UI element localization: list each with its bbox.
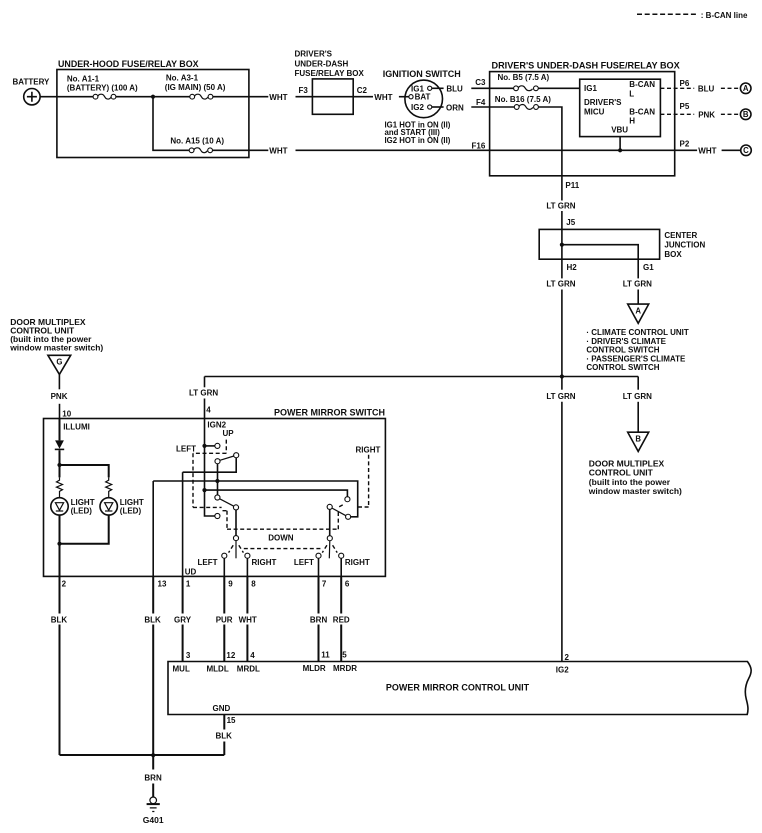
svg-text:PNK: PNK bbox=[698, 111, 715, 120]
svg-text:BLK: BLK bbox=[51, 615, 68, 624]
svg-text:G1: G1 bbox=[643, 263, 654, 272]
terminal C bbox=[741, 145, 752, 156]
label RIGHT linkage dashed bbox=[356, 445, 381, 507]
svg-text:C2: C2 bbox=[357, 86, 368, 95]
svg-text:LT GRN: LT GRN bbox=[623, 392, 652, 401]
svg-text:BATTERY: BATTERY bbox=[13, 77, 51, 86]
node: IGN2 to UP contact bbox=[202, 444, 206, 448]
under-hood fuse/relay box bbox=[57, 59, 249, 158]
svg-text:BOX: BOX bbox=[664, 250, 682, 259]
node: LED branch bbox=[57, 463, 61, 467]
svg-text:BRN: BRN bbox=[144, 774, 162, 783]
wire branch down to fuse A15 bbox=[153, 97, 189, 151]
svg-text:No. A15 (10 A): No. A15 (10 A) bbox=[170, 137, 224, 146]
svg-text:3: 3 bbox=[186, 651, 191, 660]
triangle connector A bbox=[628, 304, 649, 323]
svg-text:BLK: BLK bbox=[144, 615, 161, 624]
wire bus (LT GRN) down to pin 4 bbox=[189, 377, 218, 419]
contact UP fixed bbox=[215, 443, 220, 448]
svg-text:BLU: BLU bbox=[698, 85, 715, 94]
diode (illumination) bbox=[55, 440, 64, 449]
contact RIGHT (pin 6) bbox=[339, 553, 344, 558]
wire through F3 box bbox=[312, 96, 353, 98]
LED right: LIGHT (LED) bbox=[100, 498, 144, 516]
svg-text:9: 9 bbox=[228, 579, 233, 588]
wire left pole down bbox=[235, 510, 237, 536]
terminal B bbox=[740, 109, 751, 120]
wire node to pin 2 bbox=[59, 544, 61, 577]
note: door multiplex control unit (right) bbox=[588, 458, 682, 496]
contact RIGHT (pin 8) bbox=[245, 553, 250, 558]
svg-text:MICU: MICU bbox=[584, 108, 605, 117]
svg-text:No. A3-1: No. A3-1 bbox=[166, 74, 199, 83]
B-CAN line legend bbox=[637, 11, 748, 20]
svg-text:GRY: GRY bbox=[174, 615, 192, 624]
svg-text:(IG MAIN) (50 A): (IG MAIN) (50 A) bbox=[165, 83, 226, 92]
svg-text:IG1: IG1 bbox=[411, 84, 424, 93]
driver's MICU bbox=[580, 79, 661, 136]
svg-text:RIGHT: RIGHT bbox=[356, 445, 381, 454]
svg-text:· DRIVER'S CLIMATE: · DRIVER'S CLIMATE bbox=[586, 337, 666, 346]
ignition switch bbox=[383, 69, 461, 118]
wire pin 13 (BLK) down bbox=[144, 576, 161, 755]
svg-text:No. B16 (7.5 A): No. B16 (7.5 A) bbox=[495, 95, 551, 104]
svg-text:UP: UP bbox=[223, 429, 235, 438]
power mirror control unit box bbox=[168, 662, 751, 715]
note: door multiplex control unit (left) bbox=[9, 317, 103, 353]
selector lever left bbox=[235, 541, 237, 559]
svg-text:IG2: IG2 bbox=[411, 103, 424, 112]
svg-text:11: 11 bbox=[321, 650, 330, 659]
svg-text:B: B bbox=[635, 435, 641, 444]
svg-text:DRIVER'S: DRIVER'S bbox=[584, 98, 622, 107]
wire H2 (LT GRN) down bbox=[546, 259, 575, 376]
svg-text:IG2: IG2 bbox=[556, 665, 569, 674]
svg-text:A: A bbox=[635, 306, 641, 315]
svg-text:P5: P5 bbox=[680, 102, 690, 111]
svg-text:LEFT: LEFT bbox=[198, 558, 218, 567]
switch arm UP bbox=[215, 453, 239, 464]
svg-text:BLK: BLK bbox=[216, 732, 233, 741]
wire G1 (LT GRN) to triangle A bbox=[623, 259, 652, 304]
svg-text:ORN: ORN bbox=[446, 103, 464, 112]
driver's under-dash fuse/relay box bbox=[490, 61, 680, 176]
svg-text:8: 8 bbox=[251, 579, 256, 588]
wire A3-1 out of box (WHT) to F3 bbox=[213, 93, 313, 102]
wire UD to pin 1 bbox=[182, 472, 184, 576]
wire branch to left resistor bbox=[59, 465, 61, 477]
svg-text:DOWN: DOWN bbox=[268, 533, 294, 542]
note: ignition hot conditions bbox=[385, 121, 451, 145]
terminal BAT bbox=[409, 93, 431, 102]
selector lever right bbox=[328, 541, 331, 559]
wire B-CAN H dashed (PNK) to terminal B bbox=[660, 111, 739, 120]
svg-text:10: 10 bbox=[62, 409, 71, 418]
wire contact pin 7 down bbox=[318, 558, 320, 576]
svg-text:No. A1-1: No. A1-1 bbox=[67, 74, 100, 83]
wire junction to G1 bbox=[562, 245, 638, 260]
LED left: LIGHT (LED) bbox=[51, 498, 95, 516]
wire contact pin 6 down bbox=[340, 558, 342, 576]
svg-text:LEFT: LEFT bbox=[176, 444, 196, 453]
svg-text:UNDER-HOOD FUSE/RELAY BOX: UNDER-HOOD FUSE/RELAY BOX bbox=[58, 59, 199, 69]
terminal IG2 bbox=[411, 103, 432, 112]
svg-text:F16: F16 bbox=[472, 141, 486, 150]
node: IGN2 to right switch feed bbox=[202, 488, 206, 492]
svg-text:2: 2 bbox=[62, 579, 67, 588]
svg-text:· CLIMATE CONTROL UNIT: · CLIMATE CONTROL UNIT bbox=[586, 328, 688, 337]
svg-text:H2: H2 bbox=[567, 263, 578, 272]
svg-text:JUNCTION: JUNCTION bbox=[664, 241, 705, 250]
resistor (left LED) bbox=[57, 477, 63, 497]
svg-text:WHT: WHT bbox=[698, 147, 716, 156]
svg-text:· PASSENGER'S CLIMATE: · PASSENGER'S CLIMATE bbox=[586, 354, 686, 363]
dashed mechanical link UD bbox=[223, 504, 345, 529]
svg-text:BLU: BLU bbox=[446, 85, 463, 94]
fuse No. A3-1 (IG MAIN) (50 A) bbox=[165, 74, 226, 100]
wire branch to right LED bbox=[60, 465, 109, 477]
svg-text:RIGHT: RIGHT bbox=[252, 558, 277, 567]
contact right pole bbox=[327, 536, 332, 541]
svg-text:B-CAN: B-CAN bbox=[629, 107, 655, 116]
note: climate control units bbox=[586, 328, 688, 372]
wire J5 into junction box bbox=[561, 229, 563, 259]
selector dashes left bbox=[229, 545, 244, 552]
svg-text:IG2 HOT in ON (II): IG2 HOT in ON (II) bbox=[385, 136, 451, 145]
svg-text:BRN: BRN bbox=[310, 615, 328, 624]
svg-text:MLDL: MLDL bbox=[207, 665, 229, 674]
svg-text:UNDER-DASH: UNDER-DASH bbox=[295, 59, 349, 68]
svg-text:P2: P2 bbox=[680, 139, 690, 148]
wire pin 9 (PUR) to pin 12 MLDL bbox=[216, 576, 233, 661]
resistor (right LED) bbox=[106, 477, 112, 497]
svg-text:PUR: PUR bbox=[216, 615, 233, 624]
wire pin 13 bus to right switch lower contact bbox=[153, 481, 358, 517]
svg-text:WHT: WHT bbox=[269, 93, 287, 102]
svg-text:7: 7 bbox=[322, 579, 327, 588]
wire fuse A1-1 to junction bbox=[116, 96, 190, 98]
wire right pole down bbox=[329, 509, 331, 535]
svg-text:F3: F3 bbox=[299, 86, 309, 95]
svg-text:12: 12 bbox=[226, 651, 235, 660]
wire C2 (WHT) to ignition switch BAT bbox=[353, 93, 409, 102]
switch arm DOWN bbox=[215, 495, 239, 510]
svg-text:2: 2 bbox=[565, 653, 570, 662]
svg-text:MRDL: MRDL bbox=[237, 665, 260, 674]
wire IGN2 to UP contact bbox=[205, 445, 215, 447]
terminal A bbox=[740, 83, 751, 94]
svg-text:DRIVER'S UNDER-DASH FUSE/RELAY: DRIVER'S UNDER-DASH FUSE/RELAY BOX bbox=[492, 61, 680, 71]
triangle connector G bbox=[48, 355, 71, 374]
svg-text:ILLUMI: ILLUMI bbox=[63, 423, 90, 432]
wire right LED down and join bbox=[60, 515, 109, 544]
wire F16 line to P2 (WHT) terminal C bbox=[490, 147, 741, 156]
svg-text:P11: P11 bbox=[565, 181, 579, 190]
svg-text:RIGHT: RIGHT bbox=[345, 558, 370, 567]
triangle connector B bbox=[628, 432, 649, 451]
svg-text:(LED): (LED) bbox=[120, 507, 142, 516]
svg-text:MLDR: MLDR bbox=[303, 664, 326, 673]
svg-text:LEFT: LEFT bbox=[294, 558, 314, 567]
wire left LED down bbox=[59, 515, 61, 544]
wire pin 1 (GRY) to pin 3 MUL bbox=[174, 576, 192, 661]
node: pivot link to pin 13 bus bbox=[215, 479, 219, 483]
wire pin 8 (WHT) to pin 4 MRDL bbox=[239, 576, 257, 661]
dashed mechanical link selector bbox=[244, 548, 321, 550]
wire BRN to ground bbox=[144, 755, 162, 797]
svg-text:1: 1 bbox=[186, 579, 191, 588]
wire IG1 (BLU) to C3 bbox=[432, 85, 490, 94]
node: branch junction bbox=[151, 95, 155, 99]
svg-text:13: 13 bbox=[158, 579, 167, 588]
svg-text:IGNITION SWITCH: IGNITION SWITCH bbox=[383, 69, 461, 79]
wire ground bus bbox=[60, 754, 225, 756]
contact LEFT (pin 7) bbox=[316, 553, 321, 558]
svg-text:B-CAN: B-CAN bbox=[629, 80, 655, 89]
svg-text:G401: G401 bbox=[143, 815, 164, 825]
svg-text:POWER MIRROR CONTROL UNIT: POWER MIRROR CONTROL UNIT bbox=[386, 682, 530, 692]
svg-text:C3: C3 bbox=[475, 78, 486, 87]
wire IGN2 bus to right switch upper contact bbox=[205, 490, 348, 497]
svg-text:(BATTERY) (100 A): (BATTERY) (100 A) bbox=[67, 84, 138, 93]
wire IG2 (ORN) to F4 bbox=[432, 103, 490, 112]
svg-text:L: L bbox=[629, 89, 634, 98]
contact left pole bbox=[233, 536, 238, 541]
svg-text:C: C bbox=[743, 146, 749, 155]
svg-text:H: H bbox=[629, 117, 635, 126]
wire UP throw down to UD line bbox=[183, 458, 237, 472]
node: ground junction bbox=[151, 753, 155, 757]
svg-text:DRIVER'S: DRIVER'S bbox=[295, 50, 333, 59]
wire pin 2 (BLK) down bbox=[51, 576, 68, 755]
contact right switch lower bbox=[346, 514, 351, 519]
wire LT GRN bus to power mirror switch bbox=[205, 376, 639, 378]
svg-text:POWER MIRROR SWITCH: POWER MIRROR SWITCH bbox=[274, 408, 385, 418]
svg-text:F4: F4 bbox=[476, 98, 486, 107]
svg-text:4: 4 bbox=[250, 651, 255, 660]
svg-text:No. B5 (7.5 A): No. B5 (7.5 A) bbox=[498, 73, 550, 82]
svg-text:5: 5 bbox=[342, 650, 347, 659]
center junction box bbox=[539, 229, 705, 259]
svg-text:WHT: WHT bbox=[239, 615, 257, 624]
svg-text:LT GRN: LT GRN bbox=[546, 280, 575, 289]
wire arm pivot link bbox=[217, 464, 219, 495]
svg-text:RED: RED bbox=[333, 615, 350, 624]
wire contact pin 8 down bbox=[246, 558, 248, 576]
wire pin 13 drop bbox=[152, 481, 154, 576]
fuse No. B16 (7.5 A) bbox=[490, 95, 552, 109]
svg-text:LT GRN: LT GRN bbox=[623, 280, 652, 289]
svg-text:G: G bbox=[56, 358, 62, 367]
selector dashes right bbox=[322, 545, 337, 552]
power mirror switch box bbox=[44, 408, 386, 577]
wire G (PNK) to pin 10 bbox=[51, 374, 68, 418]
wire diode to LED branch node bbox=[59, 450, 61, 465]
terminal IG1 bbox=[411, 84, 432, 93]
svg-text:15: 15 bbox=[227, 716, 236, 725]
svg-text:CONTROL SWITCH: CONTROL SWITCH bbox=[586, 346, 659, 355]
svg-text:FUSE/RELAY BOX: FUSE/RELAY BOX bbox=[295, 69, 365, 78]
wire P11 (LT GRN) to J5 bbox=[546, 176, 575, 230]
ground G401 bbox=[143, 797, 164, 825]
svg-text:P6: P6 bbox=[680, 79, 690, 88]
svg-text:BAT: BAT bbox=[415, 93, 431, 102]
node: VBU junction bbox=[618, 148, 622, 152]
contact DOWN fixed (IGN2 feed) bbox=[215, 513, 220, 518]
svg-text:J5: J5 bbox=[566, 218, 575, 227]
fuse No. A15 (10 A) bbox=[170, 137, 224, 153]
driver's under-dash fuse/relay box (F3/C2) bbox=[295, 50, 365, 115]
svg-text:WHT: WHT bbox=[374, 93, 392, 102]
wire contact pin 9 down bbox=[223, 558, 225, 576]
svg-text:IG1: IG1 bbox=[584, 84, 597, 93]
wire VBU down to F16 line bbox=[619, 137, 621, 151]
wire pin 10 to diode bbox=[59, 419, 61, 441]
wire pin 7 (BRN) to pin 11 MLDR bbox=[310, 576, 328, 661]
svg-text:CENTER: CENTER bbox=[664, 231, 697, 240]
svg-text:LT GRN: LT GRN bbox=[546, 202, 575, 211]
svg-text:UD: UD bbox=[185, 567, 197, 576]
wire pin 6 (RED) to pin 5 MRDR bbox=[333, 576, 350, 661]
svg-text:: B-CAN line: : B-CAN line bbox=[701, 11, 748, 20]
wire battery to under-hood fuse box bbox=[40, 96, 93, 98]
wire A15 out of box (WHT) to driver's under-dash box F16 bbox=[213, 147, 490, 156]
svg-text:LT GRN: LT GRN bbox=[189, 389, 218, 398]
contact LEFT (pin 9) bbox=[222, 553, 227, 558]
fuse No. B5 (7.5 A) bbox=[490, 73, 580, 91]
svg-text:GND: GND bbox=[213, 704, 231, 713]
label LEFT linkage dashed bbox=[176, 440, 226, 508]
switch arm right bbox=[327, 504, 346, 515]
node: junction inside box bbox=[560, 243, 564, 247]
battery bbox=[13, 77, 51, 105]
svg-text:MUL: MUL bbox=[173, 665, 190, 674]
wire B16 to P11 bbox=[538, 107, 562, 176]
node: bus junction bbox=[560, 374, 564, 378]
wire pin 15 (BLK) down bbox=[216, 715, 233, 756]
wire B-CAN L dashed (BLU) to terminal A bbox=[660, 85, 739, 94]
svg-text:window master switch): window master switch) bbox=[588, 486, 682, 496]
svg-text:6: 6 bbox=[345, 579, 350, 588]
wire bus (LT GRN) to triangle B bbox=[623, 377, 652, 433]
svg-text:B: B bbox=[743, 110, 749, 119]
svg-text:PNK: PNK bbox=[51, 392, 68, 401]
svg-text:window master switch): window master switch) bbox=[9, 342, 103, 352]
svg-text:(LED): (LED) bbox=[71, 507, 93, 516]
wire IGN2 vertical bbox=[205, 419, 215, 517]
node: LED join bbox=[57, 542, 61, 546]
contact right switch upper bbox=[345, 497, 350, 502]
svg-text:LT GRN: LT GRN bbox=[546, 392, 575, 401]
fuse No. A1-1 (BATTERY) (100 A) bbox=[67, 74, 138, 99]
svg-text:VBU: VBU bbox=[611, 126, 628, 135]
wire bus (LT GRN) down to IG2 pin 2 bbox=[546, 377, 575, 662]
svg-text:CONTROL SWITCH: CONTROL SWITCH bbox=[586, 363, 659, 372]
svg-text:WHT: WHT bbox=[269, 147, 287, 156]
svg-text:MRDR: MRDR bbox=[333, 664, 357, 673]
svg-text:A: A bbox=[743, 84, 749, 93]
svg-text:4: 4 bbox=[206, 405, 211, 414]
